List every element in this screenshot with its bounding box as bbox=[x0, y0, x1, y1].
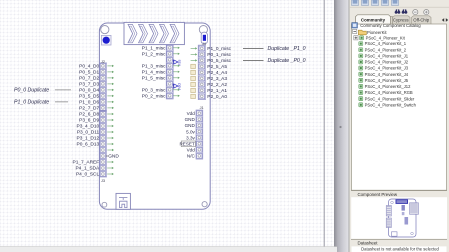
svg-text:P0_4_D0: P0_4_D0 bbox=[79, 64, 99, 70]
svg-text:P1_5_misc: P1_5_misc bbox=[142, 75, 166, 81]
svg-text:P0_5_misc: P0_5_misc bbox=[207, 58, 231, 64]
svg-text:P1_0_misc: P1_0_misc bbox=[207, 46, 231, 52]
svg-text:P3_6_D9: P3_6_D9 bbox=[79, 118, 99, 124]
svg-text:P0_7_D2: P0_7_D2 bbox=[79, 76, 99, 82]
svg-text:Datasheet: Datasheet bbox=[358, 241, 379, 246]
svg-text:GND: GND bbox=[108, 154, 119, 160]
svg-text:P1_0_D6: P1_0_D6 bbox=[79, 100, 99, 106]
svg-text:GND: GND bbox=[185, 117, 196, 122]
svg-text:P0_3_misc: P0_3_misc bbox=[142, 87, 166, 93]
svg-text:P3_4_D10: P3_4_D10 bbox=[77, 124, 100, 130]
svg-text:PSoC_4_PioneerKit_1: PSoC_4_PioneerKit_1 bbox=[365, 41, 407, 46]
svg-text:PSoC_4_PioneerKit_RGB: PSoC_4_PioneerKit_RGB bbox=[365, 90, 413, 95]
svg-text:P4_1_SDA: P4_1_SDA bbox=[75, 166, 100, 172]
svg-text:P1_0 Duplicate: P1_0 Duplicate bbox=[14, 100, 49, 106]
svg-text:Datasheet is not available for: Datasheet is not available for the selec… bbox=[361, 246, 439, 251]
svg-text:P1_7_AREF: P1_7_AREF bbox=[73, 160, 100, 166]
svg-text:PSoC_4_PioneerKit_J5: PSoC_4_PioneerKit_J5 bbox=[365, 78, 409, 83]
svg-text:P3_5_D5: P3_5_D5 bbox=[79, 94, 99, 100]
svg-text:Off-Chip: Off-Chip bbox=[413, 18, 430, 23]
svg-text:Community: Community bbox=[361, 18, 386, 23]
svg-text:P1_1_misc: P1_1_misc bbox=[142, 45, 166, 51]
svg-text:P2_6_D8: P2_6_D8 bbox=[79, 112, 99, 118]
svg-text:P2_7_D7: P2_7_D7 bbox=[79, 106, 99, 112]
svg-text:P0_6_D13: P0_6_D13 bbox=[77, 142, 100, 148]
svg-text:Duplicate _P0_0: Duplicate _P0_0 bbox=[268, 58, 306, 64]
svg-text:P0_0 Duplicate: P0_0 Duplicate bbox=[14, 88, 49, 94]
svg-text:PSoC_4_PioneerKit_J2: PSoC_4_PioneerKit_J2 bbox=[365, 60, 409, 65]
svg-text:N/C: N/C bbox=[187, 154, 196, 159]
svg-text:P1_2_misc: P1_2_misc bbox=[142, 51, 166, 57]
svg-text:Vdd: Vdd bbox=[187, 111, 196, 116]
svg-text:P2_1_A1: P2_1_A1 bbox=[207, 88, 227, 94]
svg-text:P1_3_misc: P1_3_misc bbox=[142, 63, 166, 69]
svg-text:P4_0_SCL: P4_0_SCL bbox=[76, 172, 100, 178]
svg-text:Cypress: Cypress bbox=[393, 18, 409, 23]
svg-text:P3_1_D12: P3_1_D12 bbox=[77, 136, 100, 142]
svg-text:J1: J1 bbox=[200, 106, 204, 110]
svg-text:P3_7_D3: P3_7_D3 bbox=[79, 82, 99, 88]
svg-text:PSoC_4_PioneerKit_2: PSoC_4_PioneerKit_2 bbox=[365, 47, 407, 52]
svg-text:PSoC_4_PioneerKit_Switch: PSoC_4_PioneerKit_Switch bbox=[365, 102, 417, 107]
svg-text:Component Preview: Component Preview bbox=[358, 192, 398, 197]
svg-text:PSoC_4_PioneerKit_J3: PSoC_4_PioneerKit_J3 bbox=[365, 66, 409, 71]
svg-text:P2_2_A2: P2_2_A2 bbox=[207, 82, 227, 88]
svg-text:J3: J3 bbox=[101, 179, 105, 183]
svg-text:P2_0_A0: P2_0_A0 bbox=[207, 94, 227, 100]
svg-text:Vdd: Vdd bbox=[187, 148, 196, 153]
svg-text:Community Component Catalog: Community Component Catalog bbox=[360, 23, 421, 28]
svg-text:P2_3_A3: P2_3_A3 bbox=[207, 76, 227, 82]
svg-text:PSoC_4_PioneerKit_J12: PSoC_4_PioneerKit_J12 bbox=[365, 84, 412, 89]
svg-text:P3_0_D11: P3_0_D11 bbox=[77, 130, 100, 136]
svg-text:P2_4_A4: P2_4_A4 bbox=[207, 70, 227, 76]
svg-text:J4: J4 bbox=[202, 42, 206, 46]
svg-text:GND: GND bbox=[185, 123, 196, 128]
svg-text:Duplicate _P1_0: Duplicate _P1_0 bbox=[268, 46, 306, 52]
svg-text:P0_1_misc: P0_1_misc bbox=[207, 52, 231, 58]
svg-text:P0_5_D1: P0_5_D1 bbox=[79, 70, 99, 76]
svg-text:PSoC_4_PioneerKit_J1: PSoC_4_PioneerKit_J1 bbox=[365, 53, 409, 58]
svg-text:P2_5_A5: P2_5_A5 bbox=[207, 64, 227, 70]
svg-text:P0_0_D4: P0_0_D4 bbox=[79, 88, 99, 94]
svg-text:PSoC_4_Pioneer_Kit: PSoC_4_Pioneer_Kit bbox=[366, 35, 406, 40]
svg-text:P0_2_misc: P0_2_misc bbox=[142, 93, 166, 99]
svg-text:5.0v: 5.0v bbox=[186, 129, 195, 134]
svg-text:PSoC_4_PioneerKit_Slider: PSoC_4_PioneerKit_Slider bbox=[365, 96, 415, 101]
svg-text:RESET: RESET bbox=[179, 142, 195, 147]
svg-text:P1_4_misc: P1_4_misc bbox=[142, 69, 166, 75]
svg-text:PSoC_4_PioneerKit_J4: PSoC_4_PioneerKit_J4 bbox=[365, 72, 409, 77]
svg-text:3.3v: 3.3v bbox=[186, 135, 195, 140]
